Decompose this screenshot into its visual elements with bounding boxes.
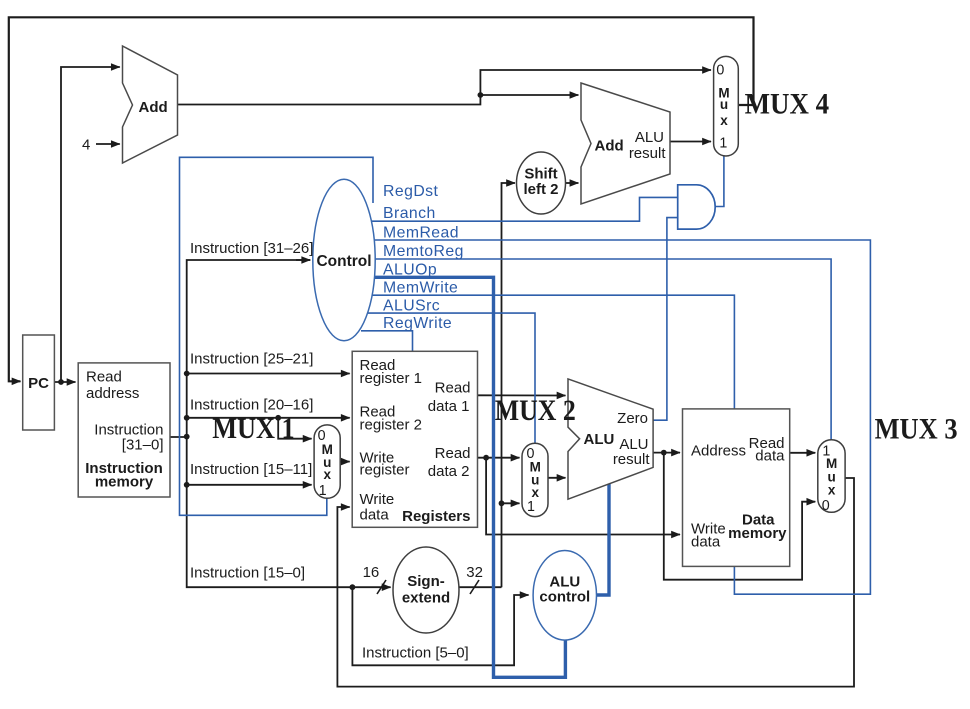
wire ALU result bypass to mux3 input 0 (664, 453, 816, 580)
wire sign-extend output to riser (459, 586, 502, 588)
wire mux1 output to Write register (340, 461, 350, 463)
svg-text:1: 1 (719, 135, 727, 151)
ALU main (568, 379, 653, 499)
svg-text:Instruction [20–16]: Instruction [20–16] (190, 397, 313, 414)
svg-text:ALU: ALU (584, 431, 615, 448)
wire mux2 output to ALU input 2 (548, 477, 566, 479)
svg-text:PC: PC (28, 375, 49, 392)
mux2 ALUSrc multiplexer (522, 443, 548, 516)
wire shift-left-2 output to Add-result bottom input (565, 182, 578, 184)
wire ALU result to data memory Address (653, 452, 680, 454)
svg-text:register: register (360, 462, 410, 479)
wire Instruction[15-0] into sign-extend (352, 586, 390, 588)
wire RegDst: control to mux1 select (180, 157, 374, 515)
svg-text:MUX 1: MUX 1 (212, 412, 295, 445)
svg-text:control: control (539, 589, 590, 606)
ALU control unit (533, 551, 596, 641)
svg-text:4: 4 (82, 137, 90, 154)
node PC+4 split (478, 92, 484, 98)
svg-text:0: 0 (822, 498, 830, 514)
svg-text:1: 1 (319, 483, 327, 499)
adder Add result (branch target) (581, 83, 670, 204)
svg-text:Shift: Shift (524, 166, 557, 183)
svg-text:MemtoReg: MemtoReg (383, 243, 464, 260)
node Read data 2 tap to data memory (483, 455, 489, 461)
wire Add-result output to mux4 input 1 (670, 141, 711, 143)
wire PC output to instruction memory Read address (54, 381, 75, 383)
svg-text:data: data (360, 507, 390, 524)
svg-text:Sign-: Sign- (407, 573, 445, 590)
wire sign-extend riser to shift-left-2 input (502, 183, 516, 587)
wire RegWrite: control to Registers write enable (361, 331, 413, 352)
node riser tap read register 1 (184, 371, 190, 377)
mux4 PCSrc multiplexer (714, 56, 739, 156)
data memory box (683, 409, 790, 567)
svg-text:left 2: left 2 (523, 181, 558, 198)
wire instruction memory output to riser (170, 436, 187, 438)
wire Branch: control to AND gate input 1 (371, 197, 678, 221)
svg-text:memory: memory (95, 474, 154, 491)
svg-text:Read: Read (435, 445, 471, 462)
node PC+branch riser junction (58, 379, 64, 385)
svg-text:address: address (86, 385, 139, 402)
svg-text:Add: Add (595, 138, 624, 155)
wire Instruction[25-21] to Read register 1 (187, 373, 350, 375)
adder Add (PC+4) (123, 46, 178, 163)
bus width slash 32 (470, 580, 479, 594)
node instruction memory output junction (184, 434, 190, 440)
svg-text:ALUOp: ALUOp (383, 262, 437, 279)
svg-text:u: u (720, 97, 728, 112)
svg-text:[31–0]: [31–0] (122, 437, 164, 454)
svg-text:x: x (324, 467, 332, 482)
wire Instruction[15-11] to mux1 input 1 (187, 484, 312, 486)
svg-text:16: 16 (363, 564, 380, 581)
svg-text:memory: memory (728, 525, 787, 542)
svg-text:Branch: Branch (383, 205, 436, 222)
svg-text:Instruction [31–26]: Instruction [31–26] (190, 240, 313, 257)
AND gate branch (678, 185, 716, 229)
svg-text:data 1: data 1 (428, 398, 470, 415)
svg-text:Read: Read (435, 380, 471, 397)
svg-text:ALU: ALU (635, 129, 664, 146)
svg-text:result: result (613, 451, 651, 468)
svg-text:data: data (755, 448, 785, 465)
svg-text:ALUSrc: ALUSrc (383, 298, 440, 315)
svg-text:RegWrite: RegWrite (383, 315, 452, 332)
shift left 2 unit (517, 152, 566, 214)
svg-text:Instruction [15–0]: Instruction [15–0] (190, 565, 305, 582)
wire MemtoReg: control to mux3 select (375, 259, 832, 440)
svg-text:result: result (629, 145, 667, 162)
mux3 MemtoReg multiplexer (818, 440, 845, 513)
control unit ellipse (313, 179, 375, 341)
svg-text:x: x (531, 485, 539, 500)
wire write-back: mux3 output to Registers Write data (337, 478, 854, 687)
wire PCSrc loop: mux4 output to PC input (9, 17, 754, 381)
svg-text:data: data (691, 534, 721, 551)
instruction memory box (78, 363, 170, 497)
registers box (352, 351, 477, 527)
svg-text:Instruction [15–11]: Instruction [15–11] (190, 461, 312, 478)
node riser tap read register 2 (184, 415, 190, 421)
wire PC to Add top input (61, 67, 120, 382)
wire Zero: ALU zero flag to AND gate input 2 (653, 218, 678, 421)
wire instruction riser from control input down to Instruction[15-0] (187, 260, 350, 587)
node ALU result junction (661, 450, 667, 456)
svg-text:Control: Control (316, 253, 371, 270)
svg-text:1: 1 (527, 499, 535, 515)
svg-text:MemWrite: MemWrite (383, 280, 458, 297)
svg-text:Read: Read (86, 369, 122, 386)
svg-text:Registers: Registers (402, 508, 470, 525)
svg-text:x: x (828, 482, 836, 497)
svg-text:MUX 3: MUX 3 (875, 412, 958, 445)
wire ALU control output to ALU control input (597, 484, 610, 595)
wire Instruction[5-0] to ALU control (352, 587, 528, 665)
wire Instruction[31-26] arrowhead into Control (296, 259, 310, 261)
wire Read data 1 to ALU input 1 (478, 394, 566, 396)
wire PC+4 to Add-result top input (480, 94, 578, 96)
svg-text:0: 0 (716, 63, 724, 79)
wire Read data 2 to data memory Write data (486, 458, 680, 535)
wire data memory Read data to mux3 input 1 (790, 452, 816, 454)
svg-text:RegDst: RegDst (383, 183, 439, 200)
node Instruction[20-16] tap to mux1 (275, 415, 281, 421)
wire Instruction[20-16] to Read register 2 (187, 417, 350, 419)
svg-text:Add: Add (139, 99, 168, 116)
svg-text:Instruction [5–0]: Instruction [5–0] (362, 645, 469, 662)
wire Read data 2 to mux2 input 0 (478, 457, 520, 459)
wire ALUSrc: control to mux2 select (368, 313, 535, 443)
bus width slash 16 (377, 580, 386, 594)
svg-text:MemRead: MemRead (383, 225, 459, 242)
wire Instruction[20-16] branch to mux1 input 0 (278, 418, 311, 439)
svg-text:register 1: register 1 (360, 370, 423, 387)
svg-text:register 2: register 2 (360, 417, 423, 434)
wire ALUOp: control to ALU control (thick) (374, 277, 565, 677)
svg-text:32: 32 (466, 564, 483, 581)
svg-text:Write: Write (360, 491, 395, 508)
wire MemWrite: control to data memory write port (372, 295, 734, 409)
node Instruction[15-0] tap (350, 584, 356, 590)
svg-text:MUX 2: MUX 2 (495, 394, 576, 427)
svg-text:Zero: Zero (617, 410, 648, 427)
svg-text:Instruction [25–21]: Instruction [25–21] (190, 351, 313, 368)
svg-text:MUX 4: MUX 4 (745, 87, 830, 120)
node riser tap instruction 15-11 (184, 482, 190, 488)
wire MemRead: control to data memory read port (374, 240, 871, 594)
sign-extend unit (393, 547, 459, 633)
node sign-extend riser tap to mux2 (499, 500, 505, 506)
wire AND gate output to mux4 select (715, 156, 724, 207)
mux1 RegDst multiplexer (314, 425, 340, 498)
wire Add output (PC+4) to mux4 input 0 (178, 70, 712, 105)
svg-text:Address: Address (691, 443, 746, 460)
svg-text:x: x (720, 113, 728, 128)
wire sign-extend riser to mux2 input 1 (502, 502, 520, 504)
svg-text:extend: extend (402, 590, 450, 607)
PC register (23, 335, 55, 430)
svg-text:data 2: data 2 (428, 463, 470, 480)
wire 4 to Add bottom input (96, 143, 120, 145)
